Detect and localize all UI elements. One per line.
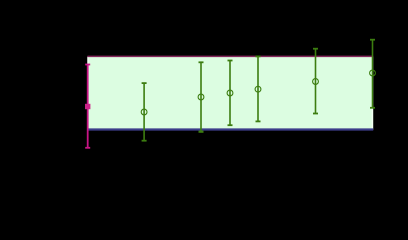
top axis line xyxy=(88,55,374,57)
error bar G4 xyxy=(255,56,261,121)
plot area fill xyxy=(88,57,374,130)
square marker xyxy=(85,104,90,109)
pink error bar P1 xyxy=(85,65,90,148)
bottom axis line xyxy=(88,128,374,130)
error bar G1 xyxy=(141,83,147,141)
error bar G5 xyxy=(313,49,319,114)
left edge light line xyxy=(87,57,89,130)
error bar G3 xyxy=(227,61,233,126)
right edge light line xyxy=(371,57,373,130)
error bar G2 xyxy=(198,62,204,131)
green error bar series xyxy=(141,40,375,141)
error bar G6 xyxy=(370,40,376,108)
